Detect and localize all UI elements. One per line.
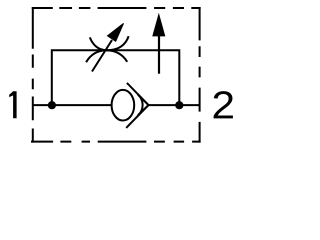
node: junction dot left [48,101,56,109]
wire: main line right (seat vertex to port 2) [149,104,200,106]
component enclosure dashed border: right side [199,7,201,143]
wire: bypass loop (left riser, top line, right riser) [52,50,180,105]
check valve ball (ellipse) [112,90,135,121]
component enclosure dashed border: top side [32,7,201,9]
check valve seat leg lower [126,105,148,128]
throttle adjustment arrow head [108,23,124,41]
throttle adjustment arrow shaft [92,40,112,72]
port label 2 [214,91,233,118]
flow direction arrow shaft [158,32,160,74]
component enclosure dashed border: left side [32,7,34,143]
node: junction dot right [175,101,183,109]
port label 1 [9,91,16,118]
throttle lower arc [86,50,127,62]
check valve seat leg upper [127,83,149,105]
check valve seat wedge (arc + vertex), white filled [138,95,149,116]
wire: main line left (port 1 to check valve) [33,104,124,106]
throttle upper arc [90,36,129,50]
component enclosure dashed border: bottom side [31,141,201,143]
flow direction arrow head [153,15,165,36]
